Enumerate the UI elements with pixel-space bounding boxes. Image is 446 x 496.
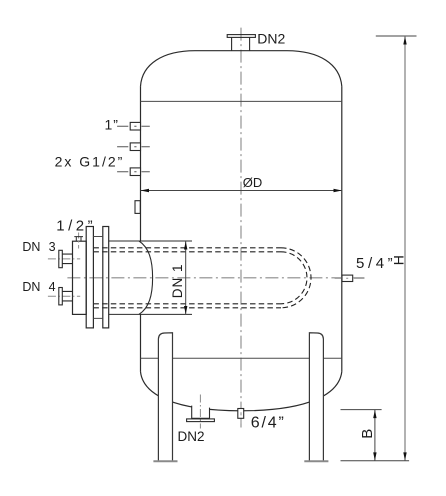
svg-text:DN2: DN2 [257, 30, 285, 46]
coupling G1/2 first centerline [117, 146, 150, 148]
flange plate A [86, 227, 93, 328]
left support leg [158, 333, 172, 462]
1/2 inch stub on channel box [74, 237, 83, 242]
svg-text:3: 3 [49, 240, 56, 254]
gasket lines between plates [93, 237, 102, 319]
bottom head (dished) [141, 372, 342, 411]
svg-text:DN 1: DN 1 [170, 264, 185, 299]
dimension H bottom arrow [403, 452, 406, 460]
bottom nozzle 6/4" [238, 409, 244, 419]
svg-text:6/4”: 6/4” [251, 415, 286, 432]
bundle horizontal centerline [67, 277, 364, 279]
top nozzle DN2 flange [227, 35, 255, 38]
dimension H line [404, 36, 406, 461]
dimension B bottom extension line (ground) [341, 460, 410, 462]
vessel vertical centerline [240, 28, 242, 428]
nozzle DN4 flange [59, 288, 63, 305]
coupling 1" centerline [117, 125, 150, 127]
dimension DN1 bottom arrow [184, 306, 187, 314]
flange plate B [103, 227, 109, 328]
heat exchanger channel box [73, 241, 87, 314]
6/4" nozzle centerline dot [240, 412, 242, 426]
coupling G1/2 second centerline [117, 171, 150, 173]
dimension B bottom arrow [373, 452, 376, 460]
right leg base plate [304, 460, 328, 462]
dimension H top extension line [376, 35, 417, 37]
1/2 inch stub centerline [78, 233, 80, 249]
nozzle DN3 neck [62, 254, 72, 264]
top head (dished) [141, 51, 342, 87]
bottom nozzle DN2 neck [192, 406, 210, 419]
left wall coupling G1/2 (first) [130, 143, 140, 151]
shell left wall (gap where bundle enters) [140, 86, 142, 371]
svg-text:DN2: DN2 [178, 429, 205, 444]
bottom nozzle DN2 centerline [199, 395, 201, 429]
svg-text:1/2”: 1/2” [56, 218, 96, 235]
dimension OD left arrow [141, 189, 150, 192]
svg-text:H: H [390, 255, 406, 265]
dimension B line [374, 410, 376, 461]
svg-text:2x G1/2”: 2x G1/2” [55, 154, 125, 170]
svg-text:1”: 1” [105, 116, 119, 132]
tube bundle hidden outline (inner stadium) [93, 252, 281, 304]
bundle shroud solid lines (also DN1 extension lines) [109, 241, 192, 314]
top tangent / weld seam line [141, 100, 342, 102]
left leg base plate [153, 460, 177, 462]
svg-text:DN: DN [22, 240, 40, 254]
left wall coupling 1" [130, 122, 140, 130]
nozzle DN4 neck [62, 291, 72, 301]
bottom tangent / weld seam line [141, 357, 342, 359]
svg-text:DN: DN [22, 280, 40, 294]
nozzle DN3 centerline [48, 258, 80, 260]
left wall coupling G1/2 (second) [130, 168, 140, 176]
dimension DN1 top arrow [184, 241, 187, 249]
svg-text:ØD: ØD [243, 175, 262, 190]
dimension B top extension line [341, 409, 382, 411]
top nozzle DN2 neck [232, 37, 250, 50]
dimension B top arrow [373, 410, 376, 418]
wall lug [135, 201, 140, 214]
nozzle DN4 centerline [48, 295, 80, 297]
svg-text:4: 4 [49, 280, 56, 294]
shell right wall [341, 86, 343, 371]
dimension OD right arrow [334, 189, 343, 192]
right support leg [309, 333, 323, 462]
dimension OD line [141, 190, 343, 192]
bottom nozzle DN2 flange [187, 419, 215, 422]
shell penetration arc [139, 241, 153, 314]
nozzle DN3 flange [59, 250, 63, 267]
dimension DN1 line [185, 241, 187, 314]
tube bundle hidden outline (outer stadium) [93, 248, 281, 308]
dimension H top arrow [403, 36, 406, 44]
5/4" nozzle centerline [335, 277, 365, 279]
5/4" nozzle box [342, 275, 353, 281]
svg-text:B: B [359, 429, 376, 439]
